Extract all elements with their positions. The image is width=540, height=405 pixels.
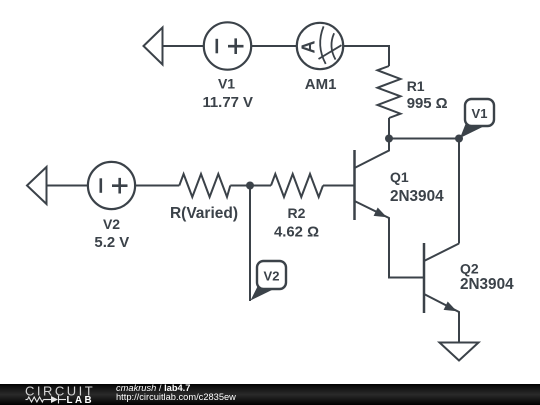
svg-text:2N3904: 2N3904: [390, 188, 444, 205]
svg-text:LAB: LAB: [67, 395, 95, 405]
svg-text:R(Varied): R(Varied): [170, 205, 238, 222]
svg-text:11.77 V: 11.77 V: [202, 95, 253, 111]
svg-text:V1: V1: [472, 106, 488, 121]
svg-text:R2: R2: [288, 205, 306, 221]
svg-text:AM1: AM1: [305, 76, 337, 93]
svg-text:V1: V1: [218, 76, 235, 92]
svg-text:995 Ω: 995 Ω: [407, 96, 448, 112]
svg-text:Q1: Q1: [390, 169, 409, 185]
svg-text:A: A: [299, 41, 319, 54]
svg-text:V2: V2: [264, 269, 280, 284]
svg-text:V2: V2: [103, 216, 120, 232]
svg-text:2N3904: 2N3904: [460, 276, 514, 293]
svg-text:Q2: Q2: [460, 261, 479, 277]
svg-text:4.62 Ω: 4.62 Ω: [274, 225, 319, 241]
svg-text:5.2 V: 5.2 V: [94, 235, 129, 251]
svg-text:R1: R1: [407, 78, 425, 94]
